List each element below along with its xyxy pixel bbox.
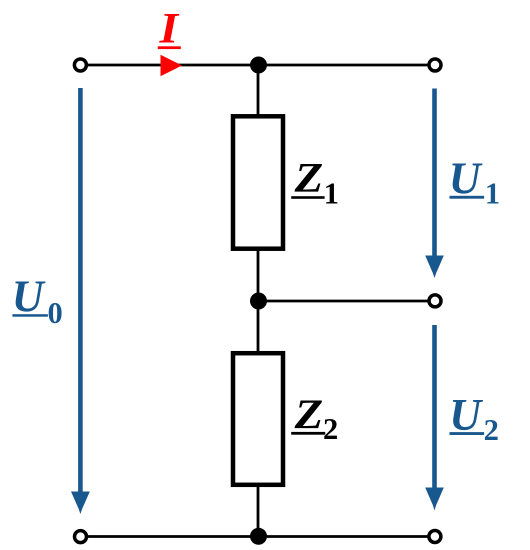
svg-text:1: 1 (324, 177, 339, 211)
svg-text:U: U (12, 271, 46, 322)
svg-text:I: I (159, 4, 180, 52)
svg-text:Z: Z (294, 390, 324, 438)
svg-text:0: 0 (48, 296, 63, 330)
svg-text:1: 1 (485, 177, 500, 211)
svg-text:2: 2 (323, 412, 338, 446)
svg-text:2: 2 (484, 413, 499, 447)
svg-text:Z: Z (294, 154, 324, 202)
